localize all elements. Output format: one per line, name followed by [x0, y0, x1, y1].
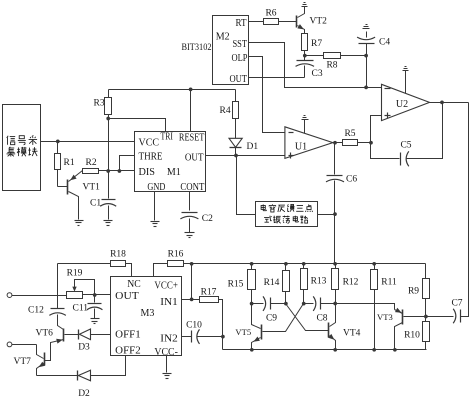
capacitor C12 column: [57, 264, 59, 309]
wire M2 OLP to U1: [249, 57, 285, 133]
svg-text:C4: C4: [379, 38, 390, 48]
wire IN2: [182, 336, 192, 338]
power above U1: [302, 116, 309, 134]
svg-text:C3: C3: [312, 69, 323, 79]
svg-text:RESET: RESET: [179, 132, 205, 143]
resistor R8: [305, 53, 367, 71]
node VCC-R1: [56, 140, 60, 144]
cross-couple C8left to VT5 base: [263, 304, 304, 332]
svg-text:THRE: THRE: [139, 151, 163, 162]
svg-text:C9: C9: [266, 313, 277, 323]
transistor VT5: [235, 304, 261, 350]
node R11 top: [372, 262, 376, 266]
svg-text:GND: GND: [147, 182, 165, 193]
wire VCC- ground: [166, 356, 168, 373]
wire IN1 drop: [191, 264, 193, 300]
transistor VT3 (PNP): [377, 308, 426, 350]
svg-text:R4: R4: [220, 106, 231, 116]
svg-text:C6: C6: [346, 175, 357, 185]
chip M3 box: [111, 277, 182, 358]
transistor VT7: [14, 345, 46, 376]
node R5-U2plus: [369, 141, 373, 145]
transistor VT2: [297, 7, 328, 34]
wire M1 GND: [154, 192, 156, 221]
node R3-TRI: [106, 117, 110, 121]
svg-text:RT: RT: [236, 18, 247, 29]
resistor R16: [154, 250, 192, 277]
svg-text:R13: R13: [311, 277, 327, 287]
svg-text:R1: R1: [64, 158, 75, 168]
potentiometer R19: [67, 268, 111, 298]
svg-text:C5: C5: [400, 141, 411, 151]
svg-text:DIS: DIS: [139, 167, 156, 178]
signal acquisition module box: [3, 105, 41, 191]
svg-text:VT6: VT6: [36, 328, 54, 338]
resistor R1: [55, 142, 75, 187]
node RESET rail: [189, 88, 193, 92]
node VT3 collector: [393, 348, 397, 352]
capacitor C4: [357, 32, 390, 56]
resistor R11: [371, 264, 397, 350]
svg-text:R15: R15: [228, 280, 244, 290]
wire THRE-DIS: [109, 156, 135, 171]
svg-text:C11: C11: [73, 304, 89, 314]
capacitor C11: [73, 295, 103, 319]
power above C4: [363, 25, 370, 29]
node R11 bottom: [372, 348, 376, 352]
svg-text:VT7: VT7: [14, 357, 32, 367]
svg-text:U2: U2: [396, 99, 408, 110]
op-amp U2: [382, 84, 430, 120]
wire C4 node to SST line: [366, 56, 368, 88]
resistor R17: [200, 288, 223, 350]
node R2-column: [106, 169, 110, 173]
diode D2: [78, 356, 126, 400]
svg-text:R9: R9: [408, 287, 419, 297]
transistor VT1: [58, 171, 101, 220]
node C9 right: [284, 302, 288, 306]
svg-text:R17: R17: [201, 288, 217, 298]
svg-text:VT1: VT1: [83, 183, 101, 193]
wire right edge down: [462, 103, 469, 317]
node R15 top: [250, 262, 254, 266]
resistor R3: [94, 90, 112, 119]
diode D3: [78, 329, 110, 353]
svg-text:M2: M2: [216, 31, 230, 42]
svg-text:IN2: IN2: [160, 334, 178, 345]
ground below VT1: [75, 221, 84, 226]
resistor R5: [333, 129, 371, 146]
svg-text:IN1: IN1: [160, 297, 178, 308]
node R19-C11: [93, 293, 97, 297]
svg-text:R6: R6: [265, 9, 276, 19]
node C6-oscbox: [333, 212, 337, 216]
node VT5 emitter: [250, 348, 254, 352]
resistor R18: [58, 250, 132, 277]
node rail-IN1: [190, 262, 194, 266]
ground below C11: [91, 319, 100, 324]
op-amp U1: [285, 127, 333, 159]
node R12 top: [333, 262, 337, 266]
diode D1: [229, 138, 258, 155]
svg-text:BIT3102: BIT3102: [182, 42, 212, 52]
ground below VCC-: [163, 374, 172, 379]
svg-text:OUT: OUT: [230, 74, 248, 85]
bottom rail: [223, 349, 427, 351]
wire U2 output: [430, 102, 469, 104]
svg-text:C7: C7: [451, 299, 462, 309]
svg-text:R2: R2: [86, 158, 97, 168]
wire M1 CONT: [189, 192, 191, 211]
wire M2 OUT to C3: [249, 77, 305, 79]
node C8 left: [302, 302, 306, 306]
svg-text:R14: R14: [264, 278, 280, 288]
wire IN1: [182, 299, 200, 301]
capacitor C1: [90, 199, 116, 220]
resistor R7: [302, 34, 323, 56]
terminal T2: [7, 342, 36, 347]
svg-text:NC: NC: [127, 279, 141, 290]
wire M2 SST to U2: [249, 43, 382, 88]
resistor R10: [404, 317, 429, 350]
wire oscbox to C6 column: [318, 214, 335, 216]
resistor R6: [249, 9, 297, 25]
node VT4 emitter: [333, 348, 337, 352]
svg-text:R10: R10: [404, 331, 420, 341]
capacitor C8: [304, 296, 336, 323]
node SST-C4: [364, 86, 368, 90]
wire M1 OUT: [206, 155, 285, 157]
svg-text:M1: M1: [167, 167, 181, 178]
transistor VT6: [36, 328, 64, 360]
node C8 right: [333, 302, 337, 306]
resistor R12: [332, 264, 359, 304]
svg-text:VT2: VT2: [310, 17, 328, 27]
resistor R9: [408, 264, 430, 317]
wire feedback down: [371, 143, 400, 159]
top rail R3-R4: [109, 89, 236, 91]
svg-text:VT3: VT3: [377, 312, 393, 322]
svg-text:U1: U1: [295, 142, 307, 153]
svg-text:OUT: OUT: [185, 152, 204, 163]
capacitor C6: [326, 143, 357, 265]
capacitor C5: [400, 141, 411, 167]
terminal T1: [7, 293, 66, 298]
node R14 top: [284, 262, 288, 266]
svg-text:R7: R7: [311, 39, 322, 49]
svg-text:C12: C12: [28, 306, 44, 316]
wire VT6 base to D3: [65, 334, 79, 336]
wire TRI: [109, 119, 166, 132]
capacitor C10: [186, 320, 222, 344]
node R8-C4: [364, 54, 368, 58]
supply rail bottom section: [192, 263, 426, 265]
svg-text:R18: R18: [110, 250, 126, 260]
svg-text:OUT: OUT: [115, 291, 139, 302]
svg-text:C2: C2: [202, 214, 213, 224]
node R17-C10: [221, 335, 225, 339]
wire RESET: [190, 90, 192, 132]
svg-text:C8: C8: [316, 313, 327, 323]
node U1 out: [333, 141, 337, 145]
node C9 left: [250, 302, 254, 306]
resistor R14: [264, 264, 290, 304]
ground below C2: [185, 233, 195, 238]
svg-text:R19: R19: [67, 268, 83, 278]
svg-text:C1: C1: [90, 199, 101, 209]
svg-text:VCC: VCC: [139, 137, 160, 148]
wire C5 to U2 out: [407, 103, 443, 159]
cross-couple C9right to VT4 base: [286, 304, 329, 331]
svg-text:OLP: OLP: [232, 53, 248, 64]
svg-text:TRI: TRI: [161, 131, 174, 142]
svg-text:D3: D3: [78, 343, 90, 353]
node OUT-D1: [234, 154, 238, 158]
svg-text:OFF1: OFF1: [115, 330, 141, 341]
chip M2 box: [213, 16, 249, 85]
svg-text:SST: SST: [233, 39, 248, 50]
svg-text:CONT: CONT: [180, 182, 204, 193]
resistor R13: [301, 264, 327, 304]
svg-text:R8: R8: [326, 61, 337, 71]
oscillator circuit box: [256, 202, 318, 227]
svg-text:R16: R16: [168, 250, 184, 260]
capacitor C2: [180, 213, 213, 233]
svg-text:R5: R5: [344, 129, 355, 139]
svg-text:VT4: VT4: [343, 328, 361, 338]
wire D1-node to oscillator box: [237, 156, 256, 215]
capacitor C9: [252, 296, 286, 323]
svg-text:M3: M3: [141, 308, 155, 319]
ground below M1 GND: [151, 222, 160, 227]
wire VT4col to VT3: [336, 304, 395, 310]
resistor R4: [220, 90, 239, 139]
svg-text:VCC+: VCC+: [154, 281, 178, 292]
svg-text:R3: R3: [94, 99, 105, 109]
transistor VT4: [328, 304, 361, 350]
ground below C1: [104, 221, 113, 226]
capacitor C7: [426, 299, 469, 324]
svg-text:VT5: VT5: [235, 327, 251, 337]
label BIT3102: [182, 42, 212, 52]
wire U2 plus input: [371, 116, 382, 143]
wire signal-box to M1 VCC: [41, 141, 135, 143]
svg-text:R11: R11: [381, 278, 397, 288]
timer M1 box: [135, 131, 206, 193]
svg-text:OFF2: OFF2: [115, 345, 141, 356]
resistor R15: [228, 264, 256, 304]
wire R3-column to C1: [108, 119, 110, 199]
wire VT7 emitter to D2: [37, 375, 78, 377]
node U2out-C5: [440, 101, 444, 105]
node R7-C3-R8: [303, 54, 307, 58]
svg-text:C10: C10: [186, 320, 202, 330]
svg-text:R12: R12: [343, 278, 359, 288]
capacitor C12: [28, 306, 66, 330]
node R13 top: [302, 262, 306, 266]
node R9-R10-C7: [424, 315, 428, 319]
svg-text:D2: D2: [78, 389, 90, 399]
svg-text:D1: D1: [247, 142, 259, 152]
power above VT2: [302, 3, 308, 7]
capacitor C3: [296, 56, 323, 80]
resistor R2: [83, 158, 109, 174]
node IN1: [190, 298, 194, 302]
node THRE-DIS split: [118, 169, 122, 173]
power above U2: [403, 67, 409, 94]
